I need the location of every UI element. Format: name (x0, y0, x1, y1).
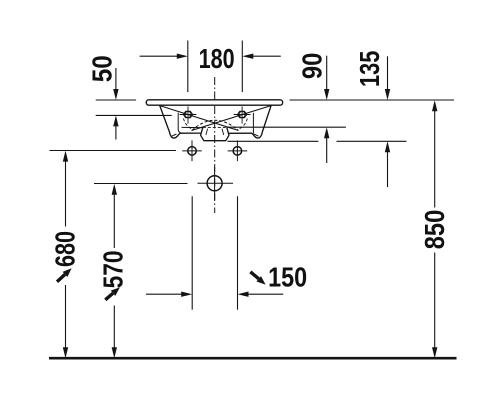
svg-text:90: 90 (297, 53, 328, 80)
svg-text:150: 150 (268, 262, 307, 293)
svg-text:50: 50 (87, 55, 118, 82)
svg-text:680: 680 (49, 231, 80, 267)
svg-text:570: 570 (98, 250, 129, 288)
svg-text:850: 850 (419, 210, 450, 250)
svg-text:180: 180 (199, 43, 235, 74)
svg-text:135: 135 (354, 51, 385, 87)
